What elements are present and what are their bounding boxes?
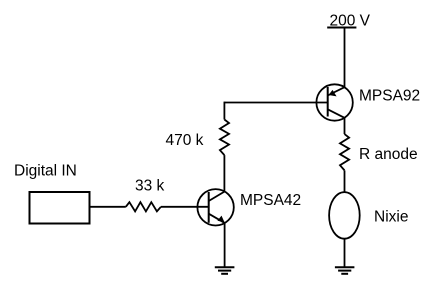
wire: Q2 collector to R3 top <box>344 118 346 134</box>
wire: R3 bottom to Nixie anode <box>344 170 346 192</box>
svg-text:R anode: R anode <box>359 146 418 163</box>
power rail 200 V bar <box>327 27 356 29</box>
resistor R2 470 k <box>220 120 229 156</box>
resistor R3 (anode resistor) <box>340 134 349 170</box>
svg-text:Nixie: Nixie <box>374 209 408 226</box>
nixie tube V1 <box>329 192 360 239</box>
resistor R1 33 k <box>126 202 161 211</box>
svg-text:MPSA92: MPSA92 <box>359 88 420 105</box>
svg-text:470 k: 470 k <box>166 132 204 149</box>
wire: R2 bottom to Q1 collector <box>223 155 225 192</box>
transistor Q2 MPSA92 (PNP) <box>316 84 352 120</box>
transistor Q1 MPSA42 (NPN) <box>197 189 233 225</box>
wire: R1 to Q1 base <box>161 206 209 208</box>
wire: corner down to R2 top <box>223 102 225 120</box>
wire: box to R1 <box>90 206 126 208</box>
wire: Q2 base to corner above R2 <box>224 102 327 104</box>
wire: 200V rail down to Q2 emitter <box>344 28 346 88</box>
wire: Nixie cathode down to ground <box>344 239 346 268</box>
ground at Q1 emitter <box>215 267 235 274</box>
svg-text:MPSA42: MPSA42 <box>240 192 301 209</box>
input box Digital IN <box>30 192 90 224</box>
svg-text:33 k: 33 k <box>135 178 165 195</box>
svg-text:Digital IN: Digital IN <box>14 163 77 180</box>
ground at Nixie cathode <box>335 267 355 274</box>
wire: Q1 emitter down to ground <box>224 222 226 267</box>
